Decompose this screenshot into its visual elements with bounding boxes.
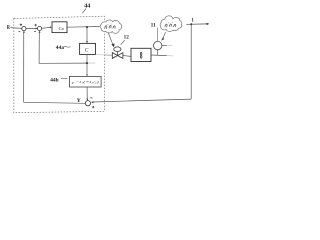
leader 11 (156, 28, 158, 42)
svg-text:Ca: Ca (59, 26, 64, 31)
junction dot B (86, 62, 88, 64)
block C (80, 43, 96, 54)
plus sign S1 (20, 24, 22, 26)
plus sign S4 (92, 106, 94, 108)
wire S2 to Ca (42, 27, 51, 28)
wire faint S3 continuation (167, 44, 173, 46)
minus sign S4 (90, 97, 92, 99)
cloud annotation 2 (160, 16, 182, 32)
summing junction S4 (85, 101, 90, 106)
block 44b delay (70, 76, 102, 87)
wire down to block C (86, 27, 88, 41)
wire valve to block 8 (123, 55, 131, 58)
wire feedback bottom (93, 99, 191, 102)
svg-text:R: R (7, 24, 10, 31)
arrowhead into S4 top (86, 99, 88, 101)
leader 44 (82, 8, 86, 13)
svg-text:−t₁(+t₂∕₂): −t₁(+t₂∕₂) (75, 80, 100, 84)
valve actuator circle (114, 47, 121, 52)
block Ca (52, 22, 67, 33)
wire S4 output left (24, 102, 86, 103)
wire R input (10, 27, 21, 30)
summing junction S1 (22, 27, 26, 31)
valve 12 body left wing (112, 53, 117, 59)
leader 44a (64, 46, 71, 49)
svg-text:8: 8 (140, 50, 143, 61)
svg-text:44b: 44b (50, 77, 58, 83)
dashed box 44 (14, 16, 105, 113)
junction dot A (86, 26, 88, 28)
cloud annotation 1 (100, 20, 121, 34)
wire block 8 output (151, 54, 167, 57)
summing junction S3 (154, 41, 162, 49)
wire S1 to S2 (26, 28, 37, 30)
wire faint stub right of junction (88, 62, 95, 64)
svg-text:C: C (85, 48, 89, 54)
svg-text:44a: 44a (56, 45, 64, 51)
wire S3 output right (162, 44, 167, 46)
arrowhead cloud1 (111, 44, 114, 48)
cloud 2 scribble (165, 22, 176, 27)
arrowhead into S2 left (36, 28, 38, 30)
wire faint continuation (167, 55, 174, 57)
wire stub up to summer S3 (157, 50, 159, 56)
leader 44b (61, 77, 68, 80)
wire faint C corner to box edge (96, 54, 105, 56)
cloud 1 scribble (105, 24, 116, 29)
svg-text:e: e (72, 80, 74, 85)
junction dot output (190, 23, 192, 25)
valve stem (117, 52, 119, 56)
wire box edge to valve (105, 54, 113, 56)
wire output to right (186, 23, 207, 25)
arrowhead into 44b top (86, 74, 88, 76)
arrowhead cloud2 (161, 37, 164, 41)
wire minor loop: block C output back to S2 (39, 32, 87, 64)
wire C output down (86, 55, 88, 74)
arrowhead into S1 bottom (23, 31, 25, 33)
svg-text:11: 11 (151, 23, 156, 29)
arrowhead into Ca (50, 26, 52, 28)
valve 12 body right wing (118, 53, 123, 59)
cloud 2 tail arrow to S3 (163, 32, 166, 39)
wire Ca output (67, 26, 100, 29)
svg-text:1: 1 (191, 18, 194, 23)
arrowhead output (207, 23, 210, 25)
arrowhead into S4 right (91, 101, 93, 103)
minus sign S1 (19, 31, 21, 33)
arrowhead into S2 bottom (39, 31, 41, 33)
wire output vertical (190, 24, 192, 99)
wire feedback up into S1 (23, 32, 25, 103)
svg-text:12: 12 (124, 35, 130, 41)
wire 44b output down (86, 87, 88, 99)
cloud 1 tail arrow to valve (108, 33, 113, 45)
plus sign S2 (35, 24, 37, 26)
svg-text:Y: Y (77, 98, 81, 104)
svg-text:44: 44 (84, 3, 90, 10)
block 8 (plant) (131, 48, 151, 61)
leader 12 (121, 40, 125, 45)
summing junction S2 (37, 26, 41, 30)
minus sign S2 (34, 31, 36, 33)
arrowhead into C top (86, 41, 88, 43)
